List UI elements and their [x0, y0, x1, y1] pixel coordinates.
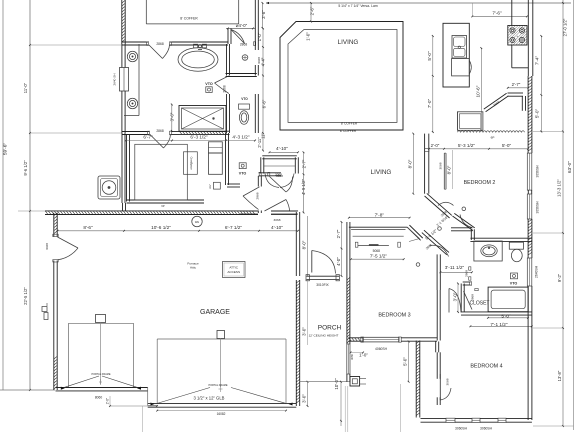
svg-text:8'-0": 8'-0"	[408, 159, 413, 168]
svg-text:8' COFFER: 8' COFFER	[340, 129, 357, 133]
svg-text:4'-4": 4'-4"	[261, 57, 266, 66]
svg-text:6P: 6P	[491, 135, 495, 139]
svg-text:3'-0": 3'-0"	[302, 327, 307, 336]
svg-text:GARAGE: GARAGE	[200, 309, 230, 316]
svg-text:8' COFFER: 8' COFFER	[180, 17, 198, 21]
svg-text:7'-4": 7'-4"	[535, 56, 540, 66]
svg-text:VTO: VTO	[241, 97, 248, 101]
svg-text:63'-0": 63'-0"	[567, 161, 572, 173]
svg-text:4'-0": 4'-0"	[336, 257, 341, 266]
svg-text:6'-7": 6'-7"	[143, 135, 153, 140]
svg-text:10'-0": 10'-0"	[334, 378, 339, 390]
svg-text:6'-7 1/2": 6'-7 1/2"	[225, 225, 242, 230]
svg-text:3068: 3068	[446, 378, 450, 385]
svg-text:22'-5 1/2": 22'-5 1/2"	[23, 287, 28, 305]
svg-text:27'-0 1/2": 27'-0 1/2"	[563, 18, 568, 36]
svg-text:LIVING: LIVING	[338, 39, 359, 46]
svg-text:BEDROOM 2: BEDROOM 2	[464, 180, 496, 186]
svg-text:Space: Space	[190, 162, 194, 170]
svg-text:8'-0": 8'-0"	[447, 165, 452, 174]
svg-text:5'-0": 5'-0"	[427, 51, 432, 61]
svg-text:3'-6": 3'-6"	[261, 10, 266, 19]
svg-text:BEDROOM 3: BEDROOM 3	[378, 313, 410, 319]
svg-text:3 1/2" x 12" GLB: 3 1/2" x 12" GLB	[194, 396, 225, 401]
svg-text:3056SH: 3056SH	[536, 201, 540, 214]
svg-text:2868: 2868	[240, 43, 248, 47]
svg-text:2'-6": 2'-6"	[310, 6, 315, 15]
svg-text:5 1/4" x 7 1/4" Versa- Lam: 5 1/4" x 7 1/4" Versa- Lam	[338, 4, 378, 8]
svg-text:3068: 3068	[275, 173, 282, 177]
svg-text:4'-3 1/2": 4'-3 1/2"	[232, 135, 249, 140]
svg-text:3056: 3056	[350, 354, 354, 360]
svg-text:1'-0": 1'-0"	[359, 353, 368, 358]
svg-text:59'-6": 59'-6"	[3, 143, 9, 156]
svg-text:6P: 6P	[161, 204, 164, 208]
svg-text:2868: 2868	[156, 42, 164, 46]
svg-text:3'-0": 3'-0"	[302, 394, 307, 403]
svg-text:9'-6 1/2": 9'-6 1/2"	[23, 160, 28, 176]
svg-text:1'-0": 1'-0"	[306, 32, 311, 41]
svg-text:3060SH: 3060SH	[480, 427, 493, 431]
svg-text:7'-6": 7'-6"	[492, 10, 502, 15]
svg-text:2'-0": 2'-0"	[431, 143, 440, 148]
svg-text:10'-6 1/2": 10'-6 1/2"	[151, 225, 171, 230]
svg-text:7'-0": 7'-0"	[427, 99, 432, 109]
svg-text:16082: 16082	[217, 412, 226, 416]
svg-text:2868: 2868	[156, 129, 164, 133]
svg-text:8060: 8060	[95, 396, 103, 400]
svg-text:6'-3 1/2": 6'-3 1/2"	[190, 135, 207, 140]
svg-text:8'-0": 8'-0"	[302, 240, 307, 249]
svg-text:4'-10": 4'-10"	[271, 225, 283, 230]
svg-text:1'-0": 1'-0"	[257, 32, 262, 41]
svg-text:5'-3 1/2": 5'-3 1/2"	[458, 143, 475, 148]
svg-text:2868: 2868	[256, 192, 260, 199]
svg-text:3056SH: 3056SH	[536, 165, 540, 178]
svg-text:LIVING: LIVING	[371, 169, 392, 176]
svg-text:2'-7": 2'-7"	[302, 159, 307, 168]
svg-text:A17: A17	[209, 184, 212, 189]
svg-text:3010FIX: 3010FIX	[316, 283, 329, 287]
svg-text:13'-8": 13'-8"	[557, 370, 562, 381]
svg-text:13'-3 1/2": 13'-3 1/2"	[557, 179, 562, 197]
svg-text:WH: WH	[195, 220, 199, 224]
svg-text:2'-7": 2'-7"	[336, 229, 341, 238]
svg-text:5'-0": 5'-0"	[403, 357, 408, 366]
svg-text:7'-8": 7'-8"	[375, 212, 385, 217]
svg-text:3060SH: 3060SH	[455, 427, 468, 431]
svg-text:5'-0": 5'-0"	[502, 143, 512, 148]
svg-text:2640 SH: 2640 SH	[113, 73, 117, 85]
svg-text:VTO: VTO	[239, 172, 247, 176]
svg-text:12' CEILING HEIGHT: 12' CEILING HEIGHT	[309, 334, 339, 338]
svg-text:CLOSET: CLOSET	[469, 300, 489, 306]
svg-text:2'-0": 2'-0"	[106, 398, 110, 404]
svg-text:10'-6": 10'-6"	[476, 85, 481, 97]
svg-text:PORCH: PORCH	[318, 325, 342, 332]
svg-text:6'-6": 6'-6"	[262, 99, 267, 108]
svg-text:3068: 3068	[439, 162, 443, 169]
svg-text:BEDROOM 4: BEDROOM 4	[470, 364, 502, 370]
svg-text:5068: 5068	[373, 249, 381, 253]
svg-text:2'-7": 2'-7"	[512, 82, 521, 87]
svg-text:ACCESS: ACCESS	[227, 270, 240, 274]
svg-text:VTO: VTO	[205, 82, 213, 86]
svg-text:11'-0": 11'-0"	[23, 82, 28, 93]
svg-text:4'-10": 4'-10"	[276, 146, 288, 151]
svg-text:4060SH: 4060SH	[375, 347, 388, 351]
svg-text:2'-11": 2'-11"	[257, 137, 262, 148]
svg-text:3'-11 1/2": 3'-11 1/2"	[445, 265, 465, 270]
svg-text:8'-6": 8'-6"	[83, 225, 93, 230]
svg-text:2868: 2868	[465, 270, 469, 277]
svg-text:3068: 3068	[274, 218, 281, 222]
svg-text:PORTAL FRAME: PORTAL FRAME	[91, 373, 110, 376]
svg-text:VTO: VTO	[510, 282, 518, 286]
svg-text:3068: 3068	[45, 243, 49, 250]
svg-text:Attic: Attic	[190, 266, 196, 270]
svg-text:2640SH: 2640SH	[535, 265, 539, 278]
svg-text:+: +	[516, 34, 518, 38]
svg-text:7'-5 1/2": 7'-5 1/2"	[370, 254, 387, 259]
svg-text:PORTAL FRAME: PORTAL FRAME	[208, 384, 227, 387]
svg-text:9'-2": 9'-2"	[557, 273, 562, 282]
svg-text:8' COFFER: 8' COFFER	[341, 122, 358, 126]
svg-text:5'-0": 5'-0"	[535, 109, 540, 119]
